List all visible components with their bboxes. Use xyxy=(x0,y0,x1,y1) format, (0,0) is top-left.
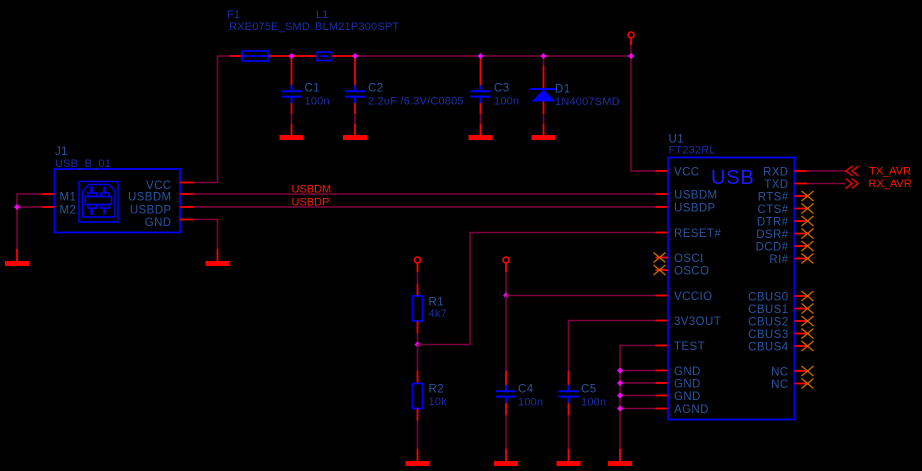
wire J1 USBDP pin xyxy=(180,206,194,208)
no-connect NC2 xyxy=(795,379,814,389)
svg-text:L1: L1 xyxy=(316,9,329,21)
svg-text:USBDM: USBDM xyxy=(128,192,172,204)
ground (J1 GND) xyxy=(206,261,230,266)
svg-text:C2: C2 xyxy=(368,83,384,95)
wire R2 bottom to ground xyxy=(417,409,419,421)
wire TEST net xyxy=(620,346,656,450)
wire net USBDM xyxy=(194,193,656,195)
svg-text:GND: GND xyxy=(674,379,701,391)
svg-text:CBUS4: CBUS4 xyxy=(748,342,789,354)
terminal VCC (top) xyxy=(628,32,634,38)
wire U1 VCCIO pin xyxy=(656,295,669,297)
inductor L1 (ferrite bead) xyxy=(317,52,332,61)
no-connect NC1 xyxy=(795,366,814,376)
no-connect RTS# xyxy=(795,191,814,201)
svg-text:TX_AVR: TX_AVR xyxy=(869,166,911,178)
junction (VCCIO/C4) xyxy=(503,293,509,299)
connector J1 xyxy=(55,146,181,233)
wire fuse F1 right pin to C1 junction xyxy=(268,55,292,57)
wire U1 3V3OUT pin xyxy=(656,320,669,322)
svg-text:OSCO: OSCO xyxy=(674,266,709,278)
svg-text:AGND: AGND xyxy=(674,404,709,416)
junction (GND1) xyxy=(617,368,623,374)
junction (R1/R2/RESET#) xyxy=(415,342,421,348)
svg-text:VCC: VCC xyxy=(146,180,171,192)
svg-text:RX_AVR: RX_AVR xyxy=(869,178,912,190)
wire VCC net top-left corner xyxy=(218,56,231,183)
svg-text:CBUS1: CBUS1 xyxy=(748,304,788,316)
svg-text:100n: 100n xyxy=(518,397,543,409)
capacitor C1 xyxy=(282,56,330,136)
wire fuse F1 left pin xyxy=(230,55,242,57)
wire L1 right pin to C2 junction xyxy=(332,55,356,57)
svg-text:RI#: RI# xyxy=(769,254,788,266)
ground (M1/M2) xyxy=(5,261,29,266)
wire U1 USBDP pin xyxy=(656,206,669,208)
pin names J1 xyxy=(60,180,172,229)
svg-text:4k7: 4k7 xyxy=(429,308,447,320)
diode D1 xyxy=(530,56,620,136)
pin names U1 left xyxy=(674,167,721,417)
svg-text:F1: F1 xyxy=(227,9,240,21)
junction (GND3) xyxy=(617,393,623,399)
svg-text:C5: C5 xyxy=(581,384,597,396)
svg-text:NC: NC xyxy=(771,379,788,391)
wire U1 TXD pin xyxy=(795,183,808,185)
ground (R2) xyxy=(406,461,430,466)
wire VCC rail right of L1 xyxy=(355,55,631,57)
svg-text:USBDP: USBDP xyxy=(674,203,716,215)
svg-text:C1: C1 xyxy=(305,83,321,95)
wire C1 junction to L1 left pin xyxy=(292,55,318,57)
wire U1 RXD pin xyxy=(795,170,808,172)
svg-text:CBUS0: CBUS0 xyxy=(748,292,788,304)
svg-text:RTS#: RTS# xyxy=(758,192,789,204)
pin names U1 right xyxy=(748,167,789,392)
svg-text:D1: D1 xyxy=(555,84,571,96)
wire AGND xyxy=(620,408,656,410)
svg-text:100n: 100n xyxy=(494,96,519,108)
svg-text:GND: GND xyxy=(674,391,701,403)
svg-text:2.2uF /6.3V/C0805: 2.2uF /6.3V/C0805 xyxy=(368,96,464,108)
svg-text:CBUS3: CBUS3 xyxy=(748,329,788,341)
junction (rail/C1) xyxy=(289,53,295,59)
svg-text:R1: R1 xyxy=(429,297,445,309)
svg-text:100n: 100n xyxy=(581,397,606,409)
svg-text:BLM21P300SPT: BLM21P300SPT xyxy=(315,21,399,33)
wire RESET# net xyxy=(418,233,656,345)
capacitor C4 xyxy=(496,296,543,462)
op-amp U1 FT232RL body xyxy=(668,134,795,420)
svg-text:USB: USB xyxy=(711,167,755,189)
wire terminal to R1 xyxy=(417,263,419,272)
wire VCCIO net xyxy=(506,295,656,297)
no-connect CBUS2 xyxy=(795,316,814,326)
svg-text:USB_B_01: USB_B_01 xyxy=(55,158,111,170)
no-connect CTS# xyxy=(795,204,814,214)
no-connect DSR# xyxy=(795,229,814,239)
svg-text:J1: J1 xyxy=(55,146,68,158)
resistor R1 xyxy=(413,296,447,321)
svg-text:CTS#: CTS# xyxy=(758,204,789,216)
port TX_AVR chevron xyxy=(846,166,859,176)
svg-text:VCC: VCC xyxy=(674,167,699,179)
no-connect CBUS3 xyxy=(795,329,814,339)
wire M2 to left xyxy=(17,206,42,208)
svg-text:10k: 10k xyxy=(429,396,448,408)
no-connect DCD# xyxy=(795,241,814,251)
ground (C4) xyxy=(494,461,518,466)
svg-text:OSCI: OSCI xyxy=(674,253,704,265)
wire GND2 xyxy=(620,382,656,384)
svg-text:DTR#: DTR# xyxy=(757,217,789,229)
capacitor C3 xyxy=(471,56,520,136)
ground (C2) xyxy=(343,135,367,140)
port RX_AVR chevron xyxy=(846,179,859,189)
fuse F1 xyxy=(242,51,268,61)
svg-text:RXE075E_SMD: RXE075E_SMD xyxy=(229,21,310,33)
wire terminal down xyxy=(505,263,507,272)
capacitor C2 xyxy=(345,56,464,136)
ground (D1) xyxy=(532,135,556,140)
svg-text:RXD: RXD xyxy=(763,167,788,179)
no-connect CBUS1 xyxy=(795,304,814,314)
no-connect RI# xyxy=(795,254,814,264)
svg-text:RESET#: RESET# xyxy=(674,228,721,240)
wire J1 M2 pin xyxy=(42,206,55,208)
svg-text:NC: NC xyxy=(771,367,788,379)
capacitor C5 xyxy=(559,371,607,461)
terminal (R1 top) xyxy=(415,257,421,263)
wire 3V3OUT net xyxy=(569,321,656,372)
USB-B symbol xyxy=(79,182,118,223)
wire ground stub xyxy=(619,449,621,461)
no-connect CBUS0 xyxy=(795,291,814,301)
svg-text:USBDM: USBDM xyxy=(674,190,718,202)
wire terminal stub xyxy=(630,38,632,45)
svg-text:M2: M2 xyxy=(60,205,77,217)
wire ground stub xyxy=(16,249,18,261)
wire GND1 xyxy=(620,370,656,372)
wire U1 VCC pin xyxy=(656,170,669,172)
wire U1 TEST pin xyxy=(656,345,669,347)
svg-text:VCCIO: VCCIO xyxy=(674,291,712,303)
svg-text:TXD: TXD xyxy=(764,179,788,191)
no-connect OSCO xyxy=(654,265,669,275)
wire R1-R2 link xyxy=(417,345,419,372)
svg-text:USBDP: USBDP xyxy=(292,197,330,209)
svg-text:C4: C4 xyxy=(518,384,534,396)
svg-text:TEST: TEST xyxy=(674,341,705,353)
ground (C1) xyxy=(280,135,304,140)
junction (rail/C2) xyxy=(352,53,358,59)
svg-text:100n: 100n xyxy=(305,96,330,108)
wire U1 USBDM pin xyxy=(656,193,669,195)
wire ground stub xyxy=(217,249,219,261)
wire U1 RESET# pin xyxy=(656,232,669,234)
junction (GND2) xyxy=(617,380,623,386)
wire R1 bottom xyxy=(417,321,419,333)
svg-text:FT232RL: FT232RL xyxy=(669,145,716,157)
junction (AGND) xyxy=(617,406,623,412)
no-connect CBUS4 xyxy=(795,341,814,351)
svg-text:GND: GND xyxy=(674,366,701,378)
ground (C3) xyxy=(469,135,493,140)
wire J1 GND pin xyxy=(180,219,194,221)
wire J1 VCC pin xyxy=(180,182,194,184)
wire GND3 xyxy=(620,395,656,397)
no-connect OSCI xyxy=(654,253,669,263)
junction (rail/VCC terminal) xyxy=(628,53,634,59)
wire GND to ground xyxy=(194,220,218,250)
terminal (VCCIO) xyxy=(503,257,509,263)
ground (C5) xyxy=(557,461,581,466)
wire J1 USBDM pin xyxy=(180,193,194,195)
svg-text:GND: GND xyxy=(145,217,172,229)
wire M1 to left xyxy=(17,194,42,249)
svg-text:DSR#: DSR# xyxy=(756,229,788,241)
wire TXD to port xyxy=(807,183,846,185)
svg-text:DCD#: DCD# xyxy=(756,242,789,254)
junction (M1/M2) xyxy=(14,204,20,210)
wire net USBDP xyxy=(194,206,656,208)
svg-text:C3: C3 xyxy=(494,83,510,95)
svg-text:USBDM: USBDM xyxy=(292,184,332,196)
svg-text:R2: R2 xyxy=(429,384,445,396)
svg-text:3V3OUT: 3V3OUT xyxy=(674,316,721,328)
wire RXD to port xyxy=(807,170,846,172)
no-connect DTR# xyxy=(795,216,814,226)
wire VCC down to U1 xyxy=(631,45,656,171)
wire J1 VCC to corner xyxy=(194,182,218,184)
ground (GND bus) xyxy=(608,461,632,466)
svg-text:USBDP: USBDP xyxy=(130,205,172,217)
svg-text:1N4007SMD: 1N4007SMD xyxy=(555,96,620,108)
resistor R2 xyxy=(413,384,448,409)
svg-text:M1: M1 xyxy=(60,192,77,204)
wire J1 M1 pin xyxy=(42,193,55,195)
svg-text:CBUS2: CBUS2 xyxy=(748,317,788,329)
junction (rail/C3) xyxy=(478,53,484,59)
junction (rail/D1) xyxy=(541,53,547,59)
